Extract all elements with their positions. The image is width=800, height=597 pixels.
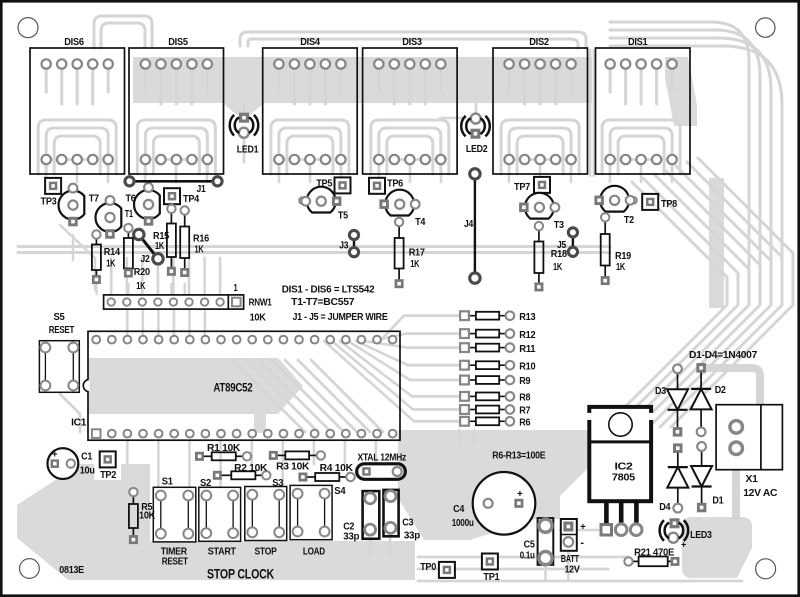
svg-text:33p: 33p xyxy=(343,531,359,542)
switch S1 xyxy=(153,477,196,542)
transistor T6 xyxy=(126,183,160,226)
svg-text:J3: J3 xyxy=(339,241,349,252)
display DIS6 LTS542 xyxy=(30,37,125,174)
transistor T3 xyxy=(519,193,564,231)
vias xyxy=(299,197,637,480)
label LOAD xyxy=(303,547,325,558)
mounting hole top-left xyxy=(18,18,38,38)
svg-text:10u: 10u xyxy=(80,466,95,477)
mounting hole top-right xyxy=(756,18,775,37)
connector X1 12V AC xyxy=(716,405,782,499)
svg-text:RESET: RESET xyxy=(162,557,189,568)
svg-text:DIS2: DIS2 xyxy=(529,37,549,48)
svg-text:D1: D1 xyxy=(712,496,724,507)
svg-text:R18: R18 xyxy=(551,249,568,260)
mounting hole bottom-right xyxy=(756,559,776,579)
resistor R18 1K xyxy=(534,222,567,291)
LED LED2 xyxy=(461,114,490,155)
svg-text:J2: J2 xyxy=(141,254,151,265)
svg-text:+: + xyxy=(52,449,58,460)
resistor R10 100E xyxy=(460,361,536,373)
svg-text:C3: C3 xyxy=(402,518,414,529)
transistor T2 xyxy=(594,186,634,226)
svg-text:TP8: TP8 xyxy=(661,199,678,210)
jumper J5 xyxy=(557,228,578,257)
resistor R16 1K xyxy=(180,206,209,277)
svg-text:D4: D4 xyxy=(659,502,671,513)
svg-text:DIS3: DIS3 xyxy=(402,37,422,48)
svg-text:S5: S5 xyxy=(54,312,66,323)
svg-text:AT89C52: AT89C52 xyxy=(213,381,252,395)
resistor R6 100E xyxy=(460,417,531,429)
resistor R14 1K xyxy=(92,230,120,284)
resistor R8 100E xyxy=(460,392,531,404)
svg-text:XTAL 12MHz: XTAL 12MHz xyxy=(358,452,407,463)
svg-text:33p: 33p xyxy=(404,530,420,541)
svg-text:DIS4: DIS4 xyxy=(300,37,320,48)
resistor R9 100E xyxy=(460,376,531,388)
legend J1 - J5 = JUMPER WIRE xyxy=(293,312,388,323)
svg-text:0813E: 0813E xyxy=(59,565,84,576)
resistor R7 100E xyxy=(460,405,531,417)
diode D4 1N4007 xyxy=(659,443,688,513)
svg-text:D2: D2 xyxy=(715,385,727,396)
svg-text:T7: T7 xyxy=(89,194,100,205)
svg-text:R7: R7 xyxy=(519,406,531,417)
label STOP xyxy=(255,547,277,558)
LED LED1 xyxy=(230,113,259,156)
test point TP3 xyxy=(41,178,62,208)
svg-text:1K: 1K xyxy=(553,262,563,273)
svg-text:STOP CLOCK: STOP CLOCK xyxy=(207,566,274,582)
svg-text:DIS5: DIS5 xyxy=(168,37,188,48)
svg-text:RESET: RESET xyxy=(49,325,75,336)
legend DIS1 - DIS6 = LTS542 xyxy=(282,284,375,295)
LED LED3 xyxy=(660,518,713,549)
switch S3 xyxy=(245,478,287,540)
mounting hole bottom-left xyxy=(20,559,40,579)
svg-text:0.1u: 0.1u xyxy=(520,550,535,561)
test point TP7 xyxy=(514,177,550,193)
svg-text:T5: T5 xyxy=(338,211,349,222)
svg-text:1K: 1K xyxy=(195,245,205,256)
svg-text:T3: T3 xyxy=(554,220,565,231)
svg-text:R6: R6 xyxy=(519,418,531,429)
resistor R1 10K xyxy=(195,443,251,461)
svg-text:S4: S4 xyxy=(334,486,346,497)
svg-text:+: + xyxy=(580,522,586,533)
svg-text:TP6: TP6 xyxy=(387,178,404,189)
IC U1 AT89C52 (IC1) xyxy=(71,331,400,440)
svg-text:R12: R12 xyxy=(519,330,536,341)
svg-text:R14: R14 xyxy=(104,247,121,258)
resistor R15 1K xyxy=(153,205,176,276)
test point TP1 xyxy=(482,554,500,583)
jumper J4 xyxy=(464,169,480,284)
svg-text:START: START xyxy=(208,547,237,558)
capacitor C3 33p xyxy=(384,490,420,541)
display DIS4 LTS542 xyxy=(263,37,358,174)
diode D2 1N4007 xyxy=(691,363,727,436)
resistor R5 10K xyxy=(129,488,156,544)
svg-text:C1: C1 xyxy=(81,452,93,463)
svg-text:STOP: STOP xyxy=(255,547,277,558)
test point TP5 xyxy=(316,177,350,193)
svg-text:TP0: TP0 xyxy=(420,562,437,573)
resistor R3 10K xyxy=(269,451,325,473)
transistor T4 xyxy=(379,190,425,228)
transistor T5 xyxy=(301,187,348,222)
svg-text:J1 - J5 = JUMPER WIRE: J1 - J5 = JUMPER WIRE xyxy=(293,312,388,323)
transistor T7 xyxy=(59,184,100,227)
legend D1-D4=1N4007 xyxy=(689,350,758,361)
svg-text:T1-T7=BC557: T1-T7=BC557 xyxy=(291,297,355,308)
svg-text:R19: R19 xyxy=(615,251,632,262)
svg-text:1: 1 xyxy=(234,283,238,294)
svg-text:S2: S2 xyxy=(200,478,212,489)
capacitor C2 33p xyxy=(343,491,379,542)
switch S2 xyxy=(199,478,241,541)
display DIS2 LTS542 xyxy=(493,37,588,174)
svg-text:R10: R10 xyxy=(519,361,536,372)
svg-text:7805: 7805 xyxy=(612,472,635,484)
resistor R17 1K xyxy=(395,218,426,289)
resistor R13 100E xyxy=(460,311,536,323)
svg-text:R21 470E: R21 470E xyxy=(634,547,674,558)
legend R6-R13=100E xyxy=(492,451,545,462)
test point TP8 xyxy=(642,194,677,210)
resistor network RNW1 10K xyxy=(104,283,273,323)
label START xyxy=(208,547,237,558)
svg-text:D3: D3 xyxy=(655,386,667,397)
resistor R2 10K xyxy=(213,463,271,480)
test point TP0 xyxy=(420,562,455,578)
svg-text:R1 10K: R1 10K xyxy=(207,443,241,454)
svg-text:R3 10K: R3 10K xyxy=(276,461,310,472)
svg-text:DIS1: DIS1 xyxy=(628,37,648,48)
svg-text:1K: 1K xyxy=(616,262,626,273)
resistor R20 1K xyxy=(124,224,150,292)
svg-text:D1-D4=1N4007: D1-D4=1N4007 xyxy=(689,350,758,361)
svg-text:TP7: TP7 xyxy=(514,182,531,193)
transistor T1 xyxy=(96,196,134,239)
svg-text:12V: 12V xyxy=(565,564,580,575)
svg-text:IC2: IC2 xyxy=(615,460,634,472)
svg-text:TP1: TP1 xyxy=(483,572,500,583)
jumper J2 xyxy=(134,229,164,265)
svg-text:1K: 1K xyxy=(155,241,165,252)
display DIS5 LTS542 xyxy=(129,37,224,174)
svg-text:DIS6: DIS6 xyxy=(64,37,84,48)
svg-text:T1: T1 xyxy=(125,209,133,220)
svg-text:RNW1: RNW1 xyxy=(249,298,273,309)
battery holder BATT 12V xyxy=(561,519,586,575)
svg-text:R6-R13=100E: R6-R13=100E xyxy=(492,451,545,462)
display DIS3 LTS542 xyxy=(363,37,458,174)
test point TP6 xyxy=(369,178,404,194)
svg-text:TP3: TP3 xyxy=(41,197,58,208)
resistor R21 470E xyxy=(624,547,679,566)
svg-text:C4: C4 xyxy=(453,504,465,515)
svg-text:+: + xyxy=(681,540,686,550)
resistor R19 1K xyxy=(601,213,632,285)
svg-text:R20: R20 xyxy=(134,267,151,278)
test point TP2 xyxy=(100,451,117,480)
svg-text:12V AC: 12V AC xyxy=(743,487,778,499)
label TIMER RESET xyxy=(161,547,189,568)
capacitor C5 0.1u xyxy=(520,518,554,565)
jumper J1 xyxy=(125,177,222,196)
voltage regulator IC2 7805 xyxy=(586,407,654,536)
svg-text:LOAD: LOAD xyxy=(303,547,325,558)
svg-text:J4: J4 xyxy=(464,219,474,230)
label 0813E xyxy=(59,565,84,576)
test point TP4 xyxy=(164,188,200,205)
svg-text:R17: R17 xyxy=(409,248,426,259)
svg-text:J1: J1 xyxy=(197,184,207,195)
svg-text:IC1: IC1 xyxy=(71,417,87,428)
svg-text:TP2: TP2 xyxy=(100,470,117,481)
svg-text:LED2: LED2 xyxy=(466,144,488,155)
resistor R12 100E xyxy=(460,329,536,341)
diode D1 1N4007 xyxy=(691,442,724,512)
svg-text:C5: C5 xyxy=(524,540,536,551)
svg-text:LED1: LED1 xyxy=(237,144,259,155)
resistor R11 100E xyxy=(460,343,536,355)
svg-text:1K: 1K xyxy=(410,259,420,270)
svg-text:LED3: LED3 xyxy=(690,530,712,541)
svg-text:R2 10K: R2 10K xyxy=(234,463,268,474)
svg-text:R16: R16 xyxy=(193,234,210,245)
capacitor C4 1000u xyxy=(452,472,536,535)
svg-text:10K: 10K xyxy=(250,312,267,323)
switch S5 RESET xyxy=(39,312,79,393)
svg-text:R8: R8 xyxy=(519,393,531,404)
capacitor C1 10u xyxy=(48,448,95,479)
svg-text:R4 10K: R4 10K xyxy=(320,463,354,474)
svg-text:DIS1 - DIS6 = LTS542: DIS1 - DIS6 = LTS542 xyxy=(282,284,375,295)
title STOP CLOCK xyxy=(207,566,274,582)
svg-text:1K: 1K xyxy=(106,259,116,270)
switch S4 xyxy=(290,485,346,539)
svg-text:S1: S1 xyxy=(162,477,174,488)
resistor R4 10K xyxy=(298,463,354,482)
svg-text:TP4: TP4 xyxy=(183,194,200,205)
crystal XTAL 12MHz xyxy=(357,452,407,479)
svg-text:R11: R11 xyxy=(519,344,536,355)
svg-text:T2: T2 xyxy=(624,215,635,226)
svg-text:X1: X1 xyxy=(746,473,758,485)
svg-text:R9: R9 xyxy=(519,376,531,387)
svg-text:1K: 1K xyxy=(136,281,146,292)
display DIS1 LTS542 xyxy=(596,37,691,174)
svg-text:T6: T6 xyxy=(126,194,137,205)
svg-text:S3: S3 xyxy=(272,478,284,489)
svg-text:1000u: 1000u xyxy=(452,518,474,529)
legend T1-T7=BC557 xyxy=(291,297,355,308)
svg-text:+: + xyxy=(517,489,523,500)
diode D3 1N4007 xyxy=(655,364,688,436)
svg-text:T4: T4 xyxy=(415,217,426,228)
svg-text:R13: R13 xyxy=(519,312,536,323)
jumper J3 xyxy=(339,230,358,256)
